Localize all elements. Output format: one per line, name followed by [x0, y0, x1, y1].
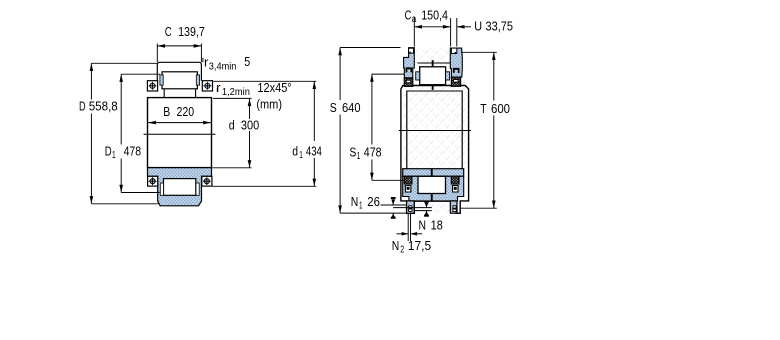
svg-text:a: a [412, 14, 417, 25]
left view: cartridge top cap outline [157, 62, 201, 80]
arrowheads dim N1 [391, 197, 396, 199]
left view: bottom seal gap left [160, 183, 163, 195]
right view: foot right [450, 201, 457, 213]
right view: bottom blue band [403, 169, 464, 177]
right view: bottom blue body [403, 176, 464, 201]
dim Ca extension lines [413, 18, 415, 47]
svg-text:1: 1 [359, 200, 363, 211]
leader r3,4min [202, 58, 204, 63]
dim N1 vertical [392, 198, 394, 206]
svg-text:N: N [419, 217, 427, 232]
arrowheads dim D [90, 63, 94, 71]
dim N1 lines [381, 204, 407, 206]
dim T extension lines [461, 51, 497, 53]
svg-text:300: 300 [241, 117, 259, 132]
arrowheads dim d1 [313, 81, 317, 89]
right view: top roller [420, 67, 446, 85]
dim N2 verticals [407, 214, 409, 241]
svg-text:d: d [292, 143, 298, 158]
right view dimension texts [330, 8, 513, 256]
svg-text:S: S [350, 144, 357, 159]
dim d line [249, 98, 251, 119]
svg-text:1: 1 [299, 150, 303, 161]
svg-text:1: 1 [357, 151, 361, 162]
dim T line [493, 52, 495, 100]
svg-text:478: 478 [364, 144, 382, 159]
svg-text:U: U [474, 19, 482, 34]
right view: top roller blue strip left [416, 72, 420, 80]
arrowheads dim C [157, 44, 165, 48]
svg-text:139,7: 139,7 [178, 24, 205, 39]
right view: top flange right white square [451, 48, 456, 53]
dim D1 extension lines [121, 73, 160, 75]
dim B line [148, 122, 211, 124]
svg-text:1,2min: 1,2min [222, 87, 250, 98]
svg-text:640: 640 [342, 100, 361, 115]
right view: split line [399, 130, 471, 132]
svg-text:(mm): (mm) [256, 97, 282, 112]
svg-text:26: 26 [367, 194, 380, 209]
right view: top roller center ticks [432, 60, 434, 90]
right view: top flange right U notch [453, 68, 460, 73]
dim d1 line [313, 81, 315, 141]
arrowheads dim Ca [414, 25, 422, 29]
right view: top flange left seal box [404, 78, 413, 87]
arrowhead dim U [457, 25, 465, 29]
left view: top seal strip right [196, 75, 199, 85]
dim S line [339, 48, 341, 101]
svg-text:12x45°: 12x45° [257, 80, 291, 95]
right view: cage top line [418, 62, 451, 64]
right view: outer body outline [401, 86, 469, 214]
svg-text:2: 2 [400, 245, 404, 256]
left view: bottom blue assembly [148, 168, 212, 206]
svg-text:C: C [165, 24, 172, 39]
left view dimension texts [79, 24, 322, 161]
right view: bottom seal square right [451, 176, 459, 184]
right view: top flange right blue [450, 48, 462, 77]
right view: top cavity hatch [415, 48, 451, 67]
right view: top flange left white square [409, 48, 414, 53]
right view: bottom roller center ticks [431, 169, 433, 201]
arrowheads dim d [248, 98, 252, 106]
left view: top seal strip left [160, 75, 163, 85]
svg-text:r: r [216, 80, 221, 95]
svg-text:17,5: 17,5 [408, 238, 431, 253]
right view: top flange left blue [404, 48, 415, 78]
left view: bottom grease square left [148, 176, 158, 186]
svg-text:N: N [392, 238, 400, 253]
dim N vertical [426, 201, 428, 207]
dim N lines [393, 207, 432, 209]
dim C extension lines [156, 44, 158, 63]
svg-text:S: S [330, 100, 337, 115]
right view: bore line right [461, 91, 463, 169]
dim d extension lines [213, 97, 252, 99]
arrowheads dim N2 [402, 232, 409, 236]
dim U line [457, 26, 471, 28]
right view: top flange left U notch [406, 67, 413, 72]
dim Ca line [414, 26, 450, 28]
left view: top inner sleeve [162, 72, 197, 89]
right view: bottom cavity hatch [415, 201, 450, 213]
dim S1 extension lines [372, 73, 404, 75]
svg-text:5: 5 [244, 54, 250, 69]
dim N2 horizontal [397, 233, 409, 235]
arrowheads dim T [492, 52, 496, 60]
dim S1 line [371, 74, 373, 144]
svg-text:D: D [79, 99, 86, 114]
svg-text:1: 1 [112, 150, 116, 161]
dim U extension line [456, 18, 458, 47]
svg-text:B: B [163, 104, 170, 119]
arrowheads dim D1 [119, 74, 123, 82]
svg-text:434: 434 [306, 143, 322, 158]
dim D line [90, 63, 92, 99]
leader r1,2min tick [216, 88, 218, 92]
svg-text:D: D [105, 143, 112, 158]
dim S extension lines [340, 47, 400, 49]
left view: bottom seal gap right [196, 183, 199, 195]
right view: bore top line [407, 90, 462, 92]
svg-text:18: 18 [431, 217, 443, 232]
dim D extension lines [91, 62, 157, 64]
dim d1 extension lines [213, 80, 316, 82]
right view: bottom seal square left [404, 176, 412, 184]
dim D1 line [120, 74, 122, 144]
svg-text:220: 220 [177, 104, 195, 119]
svg-text:3,4min: 3,4min [209, 61, 237, 72]
arrowheads dim S1 [370, 74, 374, 82]
arrowheads dim N [424, 201, 429, 203]
left view: top grease square left [147, 81, 157, 91]
svg-text:478: 478 [124, 143, 142, 158]
right view: bottom seal lip left [405, 186, 411, 193]
svg-text:150,4: 150,4 [421, 8, 448, 23]
svg-text:d: d [229, 117, 235, 132]
svg-text:600: 600 [491, 101, 510, 116]
left view: bottom grease square right [202, 176, 212, 186]
left view: sleeve neck lines [164, 89, 195, 98]
left view: housing body [148, 98, 212, 168]
arrowheads dim B [148, 121, 156, 125]
right view: top flange right seal box [451, 77, 460, 86]
svg-text:558,8: 558,8 [89, 99, 118, 114]
svg-text:33,75: 33,75 [486, 19, 514, 34]
left view: bottom inner sleeve [164, 179, 196, 196]
left view: body split line [144, 133, 216, 135]
svg-text:N: N [351, 194, 359, 209]
right view: top roller blue strip right [446, 72, 450, 80]
right view: bottom seal lip right [453, 186, 459, 193]
left view: top grease square right [202, 81, 212, 91]
svg-text:T: T [480, 101, 486, 116]
right view: interior hatch [402, 86, 469, 169]
dim C line [157, 45, 201, 47]
right view: bottom roller [418, 176, 446, 193]
arrowheads dim S [338, 48, 342, 56]
right view: foot left [407, 201, 415, 214]
right view: bore line left [406, 91, 408, 169]
